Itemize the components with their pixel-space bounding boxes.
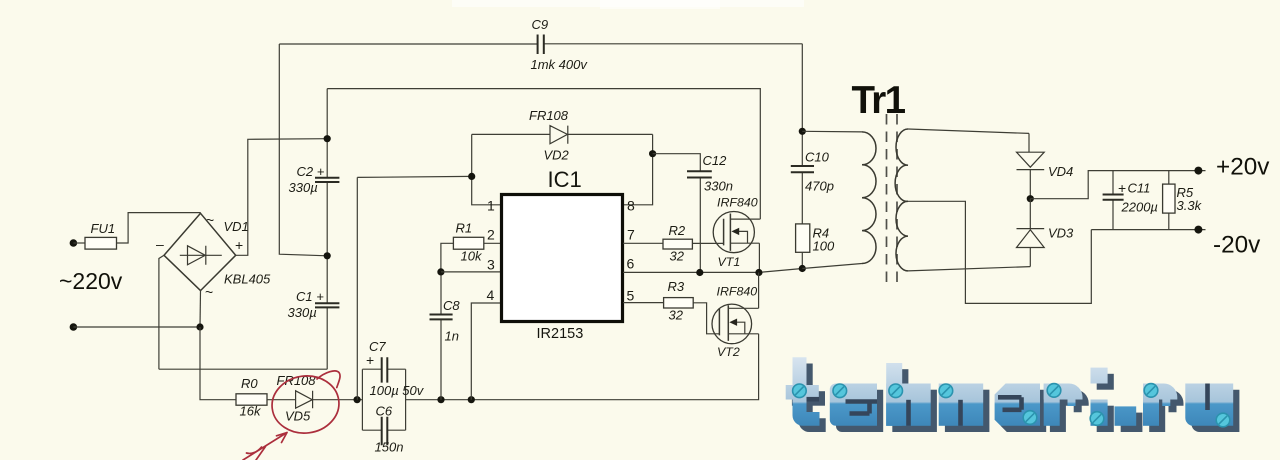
- svg-text:+: +: [235, 237, 243, 253]
- wire secondary top out: [908, 129, 1029, 133]
- svg-text:~: ~: [206, 212, 214, 228]
- diode VD5 FR108: [296, 391, 313, 408]
- primary winding: [862, 132, 876, 264]
- svg-text:10k: 10k: [461, 249, 483, 264]
- wire bridge plus up to bus: [236, 139, 328, 256]
- capacitor C2: [315, 178, 339, 182]
- capacitor C6: [362, 369, 424, 454]
- capacitor C8: [430, 272, 461, 400]
- svg-text:1n: 1n: [445, 329, 459, 344]
- svg-text:C10: C10: [805, 150, 830, 165]
- svg-text:1mk 400v: 1mk 400v: [531, 57, 589, 72]
- svg-text:FR108: FR108: [529, 108, 569, 123]
- svg-text:IRF840: IRF840: [717, 196, 758, 210]
- wire pin6 midpoint rail: [623, 269, 802, 273]
- wire bus C2C1: [326, 89, 328, 370]
- svg-text:C1 +: C1 +: [296, 289, 324, 304]
- node pin4 bottom: [468, 396, 475, 403]
- wire AC bottom rail: [73, 326, 200, 328]
- capacitor C11: [1103, 171, 1158, 230]
- wire C9 top rail: [279, 43, 802, 45]
- wire center tap: [908, 201, 1091, 303]
- node AC junction: [196, 323, 203, 330]
- watermark tehnari.ru: [786, 357, 1240, 432]
- svg-text:C2 +: C2 +: [297, 164, 325, 179]
- transistor VT1 IRF840: [713, 196, 759, 270]
- wire plus output rail: [1030, 171, 1205, 199]
- wire VT2 drain vertical: [758, 273, 760, 309]
- svg-text:3: 3: [487, 257, 495, 273]
- svg-text:100µ 50v: 100µ 50v: [370, 383, 425, 398]
- wire: [73, 242, 85, 244]
- wire fuse to bridge top: [117, 213, 201, 243]
- svg-text:IR2153: IR2153: [537, 326, 584, 342]
- svg-text:330µ: 330µ: [289, 180, 318, 195]
- svg-text:C11: C11: [1128, 181, 1151, 196]
- node bus mid junction: [324, 252, 331, 259]
- wire VD5 to C7 box: [313, 399, 363, 401]
- svg-text:330µ: 330µ: [288, 305, 317, 320]
- red annotation arrow: [243, 433, 287, 460]
- wire pin1: [472, 134, 501, 204]
- wire C9 left drop to bus: [279, 44, 327, 256]
- node half-bridge midpoint: [755, 269, 762, 276]
- diode VD2 FR108: [472, 108, 653, 163]
- core: [887, 114, 898, 284]
- svg-text:R2: R2: [669, 223, 686, 238]
- node pin3 junction: [437, 268, 444, 275]
- red annotation circle around VD5: [269, 371, 342, 437]
- svg-text:6: 6: [627, 255, 635, 271]
- resistor R4: [796, 224, 835, 269]
- node -20v terminal: [1194, 226, 1202, 234]
- node AC2 terminal: [70, 323, 78, 331]
- wire primary bottom: [802, 264, 862, 269]
- svg-text:4: 4: [487, 287, 495, 303]
- capacitor C10: [791, 44, 834, 224]
- node snubber top: [799, 128, 806, 135]
- wire top rail second: [327, 89, 760, 220]
- resistor R5: [1163, 171, 1203, 230]
- svg-text:R3: R3: [668, 279, 685, 294]
- node pin1/VD2 junction: [468, 173, 475, 180]
- svg-text:~220v: ~220v: [59, 268, 123, 294]
- node C8 bottom: [437, 396, 444, 403]
- svg-text:C12: C12: [703, 153, 728, 168]
- svg-text:KBL405: KBL405: [224, 272, 271, 287]
- wire bridge minus down to bottom row: [159, 255, 164, 369]
- secondary winding bottom: [896, 201, 908, 271]
- node AC input L terminal: [70, 239, 78, 247]
- transistor VT2 IRF840: [712, 285, 759, 360]
- svg-text:FU1: FU1: [91, 221, 116, 236]
- fuse FU1: [85, 237, 117, 249]
- wire VCC rail right: [406, 334, 759, 400]
- svg-text:470p: 470p: [805, 179, 834, 194]
- secondary winding top: [895, 129, 908, 201]
- transformer Tr1: [802, 79, 1091, 303]
- svg-text:IC1: IC1: [548, 167, 582, 192]
- watermark screws: [793, 384, 1230, 427]
- node C12 tap: [649, 150, 656, 157]
- svg-text:7: 7: [627, 226, 635, 242]
- bridge rectifier VD1 KBL405: [156, 212, 271, 300]
- svg-text:–: –: [156, 236, 164, 252]
- svg-text:5: 5: [627, 288, 635, 304]
- resistor R1: [441, 221, 501, 272]
- capacitor C1: [315, 303, 339, 307]
- node C12 bottom: [696, 269, 703, 276]
- svg-text:330n: 330n: [704, 179, 733, 194]
- wire x357 vertical: [356, 177, 358, 399]
- svg-text:+: +: [366, 352, 374, 368]
- svg-text:8: 8: [627, 197, 635, 213]
- svg-text:VT1: VT1: [718, 255, 741, 269]
- wire minus output rail: [1091, 229, 1205, 231]
- svg-text:3.3k: 3.3k: [1177, 198, 1203, 213]
- wire mid rail y177: [357, 176, 471, 177]
- wire primary top: [802, 130, 862, 133]
- wire pin4: [471, 303, 501, 400]
- wire bottom negative row: [159, 368, 327, 370]
- svg-text:VD5: VD5: [285, 409, 311, 424]
- capacitor C7: [362, 339, 405, 383]
- svg-text:1: 1: [487, 197, 495, 213]
- erased text remnant top: [452, 0, 804, 7]
- IC IC1 IR2153 driver: [487, 167, 636, 342]
- svg-text:VD2: VD2: [544, 148, 570, 163]
- svg-text:150n: 150n: [375, 440, 404, 455]
- svg-text:+: +: [1118, 180, 1126, 196]
- svg-text:32: 32: [669, 308, 684, 323]
- resistor R2: [623, 223, 724, 264]
- resistor R3: [623, 279, 719, 334]
- node snubber bottom: [799, 265, 806, 272]
- svg-text:16k: 16k: [240, 404, 262, 419]
- svg-text:VD1: VD1: [224, 219, 249, 234]
- svg-text:2: 2: [487, 226, 495, 242]
- svg-text:VD3: VD3: [1048, 226, 1074, 241]
- node rectifier output: [1027, 195, 1034, 202]
- svg-text:2200µ: 2200µ: [1121, 200, 1158, 215]
- capacitor C12: [653, 153, 733, 273]
- svg-text:C8: C8: [443, 298, 460, 313]
- wire down to R0 row: [200, 327, 236, 400]
- svg-text:~: ~: [205, 284, 213, 300]
- wire pin3 stub: [441, 271, 501, 273]
- svg-text:-20v: -20v: [1213, 232, 1261, 259]
- wire VT1 drain/source verticals: [758, 219, 761, 272]
- svg-text:VT2: VT2: [717, 345, 740, 359]
- node VCC junction: [354, 396, 361, 403]
- node bus top junction: [324, 135, 331, 142]
- svg-text:IRF840: IRF840: [717, 285, 758, 299]
- svg-text:C6: C6: [376, 404, 393, 419]
- svg-text:R0: R0: [241, 376, 258, 391]
- svg-text:+20v: +20v: [1216, 154, 1270, 181]
- svg-text:32: 32: [670, 249, 685, 264]
- diode VD3: [1017, 199, 1075, 267]
- wire VD2 right vertical / pin8: [623, 134, 653, 204]
- wire R0 to VD5: [267, 399, 296, 401]
- svg-text:C9: C9: [532, 17, 549, 32]
- capacitor C9: [538, 35, 544, 55]
- svg-text:R1: R1: [456, 221, 473, 236]
- node +20v terminal: [1194, 167, 1202, 175]
- diode VD4: [1017, 133, 1074, 198]
- wire bridge bottom to AC node: [199, 291, 202, 327]
- svg-text:100: 100: [813, 239, 835, 254]
- wire secondary bottom out: [908, 267, 1030, 271]
- resistor R0: [236, 394, 267, 405]
- svg-text:VD4: VD4: [1048, 164, 1073, 179]
